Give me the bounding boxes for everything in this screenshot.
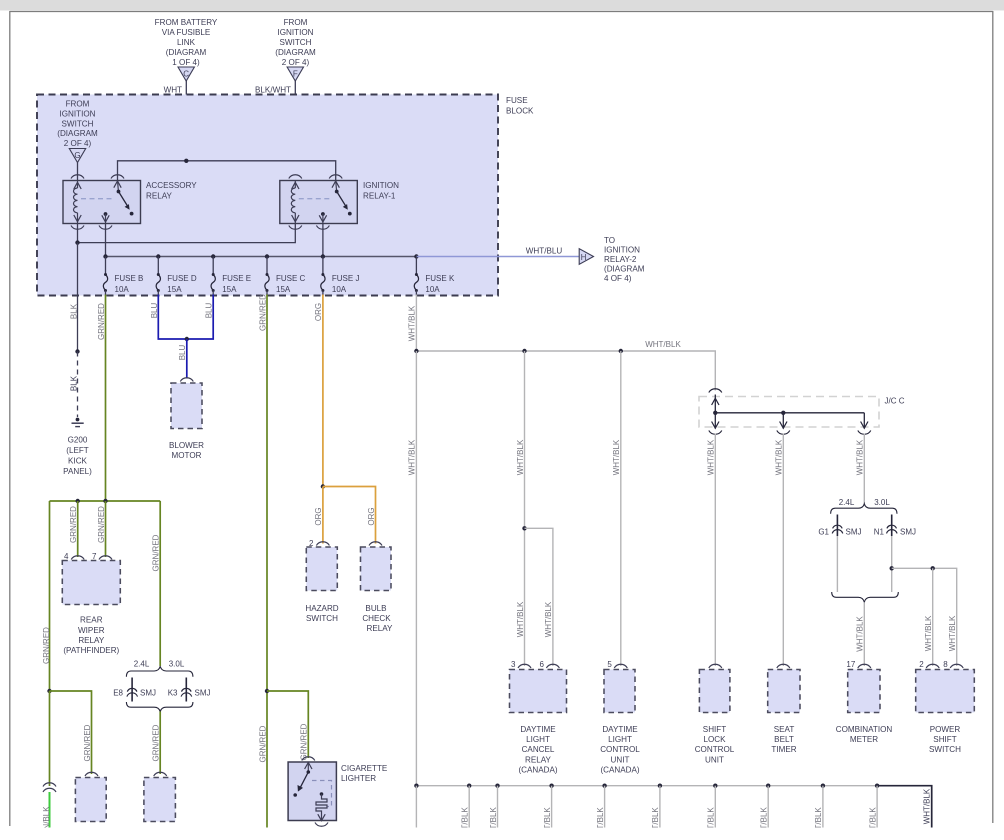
svg-text:GRN/RED: GRN/RED: [83, 724, 92, 761]
J/C C exit arrow middle: [780, 413, 787, 429]
svg-text:K3: K3: [168, 689, 178, 698]
svg-text:IGNITION: IGNITION: [278, 28, 314, 37]
svg-text:4 OF 4): 4 OF 4): [604, 274, 632, 283]
label: G200 (LEFT KICK PANEL): [63, 436, 92, 477]
junction bottom bus 3: [495, 784, 499, 788]
svg-text:N1: N1: [874, 528, 885, 537]
svg-text:FUSE K: FUSE K: [425, 274, 455, 283]
svg-text:RELAY: RELAY: [367, 624, 394, 633]
svg-text:WHT/BLK: WHT/BLK: [612, 439, 621, 475]
label: TO IGNITION RELAY-2 (DIAGRAM 4 OF 4): [604, 236, 645, 283]
junction bottom bus 8: [766, 784, 770, 788]
wire GRN/RED to rear wiper pin 4: [77, 501, 79, 557]
svg-text:BLU: BLU: [205, 302, 214, 318]
seat belt timer box: [768, 670, 800, 713]
junction coil tie / BLK drop: [75, 240, 79, 244]
cigarette lighter switch: [293, 762, 312, 797]
pin arc accessory coil bottom: [71, 226, 84, 230]
J/C C internal riser with up arrow: [712, 395, 719, 413]
svg-text:IGNITION: IGNITION: [60, 110, 96, 119]
merge brace combination meter: [832, 592, 899, 602]
svg-text:G200: G200: [68, 436, 88, 445]
svg-text:3.0L: 3.0L: [169, 659, 185, 668]
pin arc hazard switch: [316, 542, 329, 546]
shift lock control unit box: [699, 670, 730, 713]
svg-text:WHT/BLK: WHT/BLK: [775, 439, 784, 475]
svg-text:(CANADA): (CANADA): [600, 765, 639, 774]
svg-text:J/C C: J/C C: [885, 397, 905, 406]
svg-text:WHT/BLK: WHT/BLK: [645, 340, 681, 349]
junction bottom bus 9: [821, 784, 825, 788]
svg-text:GRN/RED: GRN/RED: [152, 724, 161, 761]
pin arc rear wiper 7: [99, 556, 112, 560]
svg-text:SHIFT: SHIFT: [933, 735, 956, 744]
junction bottom bus 1: [414, 784, 418, 788]
junction cigarette branch: [265, 689, 269, 693]
wire GRN/RED from distribution to engine split: [159, 501, 161, 666]
pin arc cigarette lighter top: [302, 757, 315, 761]
splice junction on BLK: [75, 349, 79, 353]
ignition relay box: [280, 181, 358, 224]
svg-text:WHT: WHT: [164, 86, 182, 95]
svg-text:BULB: BULB: [365, 604, 386, 613]
split brace top right: [831, 504, 897, 514]
svg-text:GRN/RED: GRN/RED: [300, 723, 309, 760]
pin arc J/C C bottom left: [709, 431, 722, 435]
junction bottom bus 10: [875, 784, 879, 788]
wire ORG to hazard switch: [322, 487, 324, 544]
svg-text:VIA FUSIBLE: VIA FUSIBLE: [162, 28, 211, 37]
wire WHT/BLK to shift lock unit: [714, 434, 716, 667]
svg-text:FROM: FROM: [66, 100, 90, 109]
svg-text:METER: METER: [850, 735, 878, 744]
daytime light cancel relay box: [510, 670, 567, 713]
wire BLK inside block: [77, 243, 79, 296]
junction bus at fuse K drop: [414, 349, 418, 353]
wire WHT from triangle C down into fuse block: [185, 81, 187, 161]
svg-text:SMJ: SMJ: [140, 689, 156, 698]
accessory relay switch: [114, 181, 134, 216]
accessory relay output contact: [102, 212, 109, 223]
junction bottom bus 6: [658, 784, 662, 788]
wire WHT/BLK to seat belt timer: [782, 434, 784, 667]
svg-text:WHT/BLK: WHT/BLK: [923, 788, 932, 824]
svg-text:C: C: [183, 70, 189, 79]
svg-text:REAR: REAR: [80, 616, 103, 625]
svg-text:GRN/RED: GRN/RED: [42, 627, 51, 664]
svg-text:FUSE B: FUSE B: [115, 274, 144, 283]
svg-text:GRN/RED: GRN/RED: [152, 534, 161, 571]
svg-text:15A: 15A: [167, 285, 182, 294]
wire 3.0L branch N1: [891, 515, 893, 537]
svg-text:G1: G1: [818, 528, 829, 537]
svg-text:SMJ: SMJ: [195, 689, 211, 698]
pin arc combination meter: [858, 664, 871, 668]
svg-text:COMBINATION: COMBINATION: [836, 725, 893, 734]
svg-text:WHT/BLU: WHT/BLU: [526, 247, 563, 256]
rear wiper relay box: [62, 561, 120, 605]
svg-text:SEAT: SEAT: [774, 725, 795, 734]
wire GRN/BLK below connector: [49, 792, 51, 828]
svg-text:7: 7: [92, 552, 97, 561]
pin arc daytime control 5: [614, 664, 627, 668]
svg-text:10A: 10A: [115, 285, 130, 294]
junction J/C C at 783: [781, 411, 785, 415]
ignition relay dashed link: [299, 198, 330, 200]
pin arc daytime cancel 3: [518, 664, 531, 668]
svg-text:ORG: ORG: [314, 507, 323, 525]
svg-text:WHT/BLK: WHT/BLK: [948, 615, 957, 651]
svg-text:IGNITION: IGNITION: [604, 246, 640, 255]
svg-text:FUSE: FUSE: [506, 96, 528, 105]
svg-text:(DIAGRAM: (DIAGRAM: [57, 129, 98, 138]
label: REAR WIPER RELAY (PATHFINDER): [63, 616, 119, 655]
svg-text:WHT/BLK: WHT/BLK: [856, 616, 865, 652]
wire accessory output down to fuse bus: [105, 224, 107, 257]
junction rear wiper pin7: [103, 499, 107, 503]
pin arc ignition output bottom: [316, 226, 329, 230]
split brace top left: [126, 666, 192, 677]
svg-text:15A: 15A: [276, 285, 291, 294]
svg-text:WHT/BLK: WHT/BLK: [544, 601, 553, 637]
ignition relay output contact: [319, 212, 326, 223]
svg-text:6: 6: [539, 660, 544, 669]
label: FROM IGNITION SWITCH (DIAGRAM 2 OF 4) inside block: [57, 100, 98, 148]
svg-text:FUSE C: FUSE C: [276, 274, 306, 283]
svg-text:GRN/RED: GRN/RED: [97, 303, 106, 340]
top gray band: [0, 0, 1004, 11]
cigarette lighter box: [288, 762, 336, 821]
connector triangle C: [178, 67, 194, 81]
svg-text:ORG: ORG: [314, 303, 323, 321]
svg-text:(DIAGRAM: (DIAGRAM: [166, 48, 207, 57]
svg-text:PANEL): PANEL): [63, 467, 92, 476]
wire WHT/BLK long left vertical: [415, 351, 417, 786]
junction power shift pin2: [931, 566, 935, 570]
svg-text:(CANADA): (CANADA): [518, 765, 557, 774]
wire WHT/BLK branch to pin 6: [525, 528, 553, 666]
pin arc J/C C top: [709, 389, 722, 393]
svg-text:E8: E8: [113, 689, 123, 698]
svg-text:WHT/BLK: WHT/BLK: [408, 305, 417, 341]
junction connector J/C C box: [699, 397, 879, 428]
svg-text:BLU: BLU: [150, 302, 159, 318]
fuse B: [103, 257, 143, 296]
svg-text:1 OF 4): 1 OF 4): [172, 58, 200, 67]
wire BLU from fuse E: [187, 295, 213, 340]
svg-text:LIGHT: LIGHT: [526, 735, 550, 744]
wire stub bottom 6: [659, 786, 661, 828]
J/C C exit arrow left: [712, 413, 719, 429]
fuse D: [156, 257, 197, 296]
wire WHT/BLK to daytime cancel relay: [524, 351, 526, 666]
svg-text:3.0L: 3.0L: [874, 498, 890, 507]
svg-text:WHT/BLK: WHT/BLK: [707, 439, 716, 475]
svg-text:3: 3: [511, 660, 516, 669]
wire stub bottom 8: [767, 786, 769, 828]
wire WHT/BLK to daytime control unit: [620, 351, 622, 666]
svg-text:BLK: BLK: [69, 303, 78, 319]
svg-text:H: H: [581, 253, 587, 262]
fuse J: [321, 257, 360, 296]
svg-text:LIGHT: LIGHT: [608, 735, 632, 744]
ignition relay switch: [332, 181, 352, 216]
wire WHT/BLK from fuse K: [415, 295, 417, 352]
svg-text:FUSE J: FUSE J: [332, 274, 360, 283]
svg-text:SMJ: SMJ: [900, 528, 916, 537]
fuse E: [211, 257, 251, 296]
inline connector on left wire: [43, 783, 56, 787]
inline connector K3 SMJ: [182, 688, 192, 691]
svg-text:TO: TO: [604, 236, 615, 245]
svg-text:10A: 10A: [425, 285, 440, 294]
svg-text:BLOWER: BLOWER: [169, 441, 204, 450]
wire from G to accessory relay coil: [77, 163, 79, 181]
pin arc J/C C bottom right: [858, 431, 871, 435]
svg-text:(LEFT: (LEFT: [66, 446, 89, 455]
blower motor box: [171, 383, 202, 429]
junction left branch: [47, 689, 51, 693]
junction bottom bus 2: [467, 784, 471, 788]
svg-text:17: 17: [846, 660, 855, 669]
wire BLU to blower motor: [186, 339, 188, 379]
junction bottom bus 5: [602, 784, 606, 788]
pin arc rear wiper 4: [71, 556, 84, 560]
svg-text:LINK: LINK: [177, 38, 196, 47]
svg-text:HAZARD: HAZARD: [305, 604, 338, 613]
svg-text:FUSE E: FUSE E: [222, 274, 251, 283]
svg-text:4: 4: [64, 552, 69, 561]
wire GRN/RED distribution line: [50, 500, 161, 502]
wire WHT/BLK N1 down to merge: [891, 536, 893, 592]
svg-text:TIMER: TIMER: [771, 745, 796, 754]
svg-text:SHIFT: SHIFT: [703, 725, 726, 734]
wire stub bottom 4: [551, 786, 553, 828]
fuse K: [414, 257, 455, 296]
inline connector E8 SMJ: [127, 688, 137, 691]
svg-text:SWITCH: SWITCH: [306, 614, 338, 623]
junction cancel relay pin6 branch: [522, 526, 526, 530]
connector triangle G: [69, 149, 85, 163]
pin arc blower motor: [180, 378, 193, 382]
svg-text:F: F: [293, 70, 298, 79]
label: SEAT BELT TIMER: [771, 725, 796, 754]
combination meter box: [848, 670, 880, 713]
wire coil ground tie: [78, 224, 296, 243]
svg-text:GRN/RED: GRN/RED: [69, 506, 78, 543]
wire WHT/BLK to engine split right: [863, 434, 865, 504]
svg-text:GRN/RED: GRN/RED: [258, 725, 267, 762]
svg-text:2.4L: 2.4L: [134, 659, 150, 668]
svg-text:2: 2: [919, 660, 924, 669]
svg-text:CANCEL: CANCEL: [522, 745, 555, 754]
pin arc module2: [154, 772, 167, 776]
svg-text:2.4L: 2.4L: [839, 498, 855, 507]
svg-text:LOCK: LOCK: [703, 735, 726, 744]
svg-text:(PATHFINDER): (PATHFINDER): [63, 646, 119, 655]
wire WHT/BLK bottom bus: [416, 785, 883, 787]
daytime light control unit box: [604, 670, 635, 713]
inline connector G1 SMJ: [833, 525, 843, 528]
svg-text:8: 8: [943, 660, 948, 669]
pin arc ignition coil bottom: [289, 226, 302, 230]
svg-text:LIGHTER: LIGHTER: [341, 774, 376, 783]
svg-text:CHECK: CHECK: [362, 614, 391, 623]
svg-text:KICK: KICK: [68, 457, 87, 466]
wire WHT/BLK top distribution bus: [416, 351, 715, 391]
junction at WHT drop: [184, 159, 188, 163]
svg-text:RELAY: RELAY: [525, 755, 552, 764]
wire GRN/RED from fuse C long: [266, 295, 268, 828]
junction bottom bus 7: [713, 784, 717, 788]
pin arc shift lock: [709, 664, 722, 668]
J/C C exit arrow right: [861, 413, 868, 429]
svg-text:GRN/RED: GRN/RED: [97, 506, 106, 543]
wire stub bottom 3: [497, 786, 499, 828]
wire GRN/RED to rear wiper pin 7: [105, 501, 107, 557]
accessory relay box: [63, 181, 141, 224]
power shift switch box: [916, 670, 975, 713]
svg-text:BLU: BLU: [178, 344, 187, 360]
inline connector N1 SMJ: [887, 525, 897, 528]
junction power shift branch: [890, 566, 894, 570]
wire WHT/BLK to power shift pin 2: [932, 568, 934, 666]
wire stub bottom 7: [714, 786, 716, 828]
wire BLK solid segment: [77, 296, 79, 352]
svg-text:SWITCH: SWITCH: [929, 745, 961, 754]
label: FROM IGNITION SWITCH (DIAGRAM 2 OF 4) top: [275, 18, 316, 67]
svg-text:DAYTIME: DAYTIME: [520, 725, 556, 734]
connector triangle H: [579, 249, 593, 265]
svg-text:RELAY-2: RELAY-2: [604, 255, 637, 264]
label: SHIFT LOCK CONTROL UNIT: [695, 725, 735, 764]
wire stub bottom 1: [415, 786, 417, 828]
svg-text:CONTROL: CONTROL: [600, 745, 640, 754]
wire ORG branch to bulb check relay: [323, 487, 376, 544]
wire WHT/BLK merged to combination meter: [863, 603, 865, 667]
accessory relay dashed link: [81, 198, 112, 200]
svg-text:WHT/BLK: WHT/BLK: [516, 601, 525, 637]
svg-text:UNIT: UNIT: [611, 755, 630, 764]
svg-text:BLK: BLK: [69, 375, 78, 391]
svg-text:SWITCH: SWITCH: [62, 119, 94, 128]
wire 2.4L branch G1: [836, 515, 838, 537]
svg-text:ORG: ORG: [367, 507, 376, 525]
pin arc ignition switch top: [329, 175, 342, 179]
fuse block outline: [37, 95, 498, 296]
svg-text:ACCESSORY: ACCESSORY: [146, 181, 197, 190]
wire GRN/RED from fuse B down: [105, 295, 107, 502]
svg-text:WIPER: WIPER: [78, 626, 105, 635]
svg-text:IGNITION: IGNITION: [363, 181, 399, 190]
connector triangle F: [287, 67, 303, 81]
junction BLU merge: [185, 337, 189, 341]
junction bottom bus 4: [549, 784, 553, 788]
wire stub bottom 2: [468, 786, 470, 828]
wire GRN/RED continues to inline connector: [49, 691, 51, 786]
wire BLU from fuse D: [158, 295, 187, 340]
wire GRN/RED branch to first module: [50, 691, 92, 774]
ignition relay coil: [291, 181, 295, 224]
fuse C: [265, 257, 306, 296]
junction rear wiper pin4: [76, 499, 80, 503]
wire GRN/RED branch to cigarette lighter: [267, 691, 308, 758]
label: COMBINATION METER: [836, 725, 893, 744]
J/C C internal bus: [715, 412, 864, 414]
svg-text:FUSE D: FUSE D: [167, 274, 197, 283]
wire BLK dashed segment to ground: [77, 352, 79, 418]
wire WHT/BLU out of block to triangle H: [416, 256, 579, 258]
svg-text:5: 5: [607, 660, 612, 669]
wire stub bottom 10: [876, 786, 878, 828]
cigarette lighter heating element: [316, 792, 327, 821]
svg-text:DAYTIME: DAYTIME: [602, 725, 638, 734]
wire stub bottom 5: [604, 786, 606, 828]
pin arc seat belt timer: [777, 664, 790, 668]
label: DAYTIME LIGHT CANCEL RELAY (CANADA): [518, 725, 557, 774]
svg-text:10A: 10A: [332, 285, 347, 294]
svg-text:FROM BATTERY: FROM BATTERY: [155, 18, 218, 27]
svg-text:G: G: [74, 151, 80, 160]
wire WHT/BLK branch to power shift switch: [892, 568, 957, 666]
module1 box (unnamed): [75, 778, 106, 822]
svg-text:(DIAGRAM: (DIAGRAM: [275, 48, 316, 57]
svg-text:CONTROL: CONTROL: [695, 745, 735, 754]
junction dots on fuse bus: [103, 254, 107, 258]
wire WHT/BLK G1 down to merge: [836, 536, 838, 592]
junction ORG split: [321, 484, 325, 488]
pin arc accessory switch top: [111, 175, 124, 179]
pin arc module1: [85, 772, 98, 776]
svg-text:RELAY: RELAY: [146, 191, 173, 200]
svg-text:2 OF 4): 2 OF 4): [64, 139, 92, 148]
svg-text:SWITCH: SWITCH: [280, 38, 312, 47]
svg-text:RELAY-1: RELAY-1: [363, 191, 396, 200]
svg-text:CIGARETTE: CIGARETTE: [341, 764, 388, 773]
pin arc bulb check relay: [369, 542, 382, 546]
svg-text:WHT/BLK: WHT/BLK: [408, 439, 417, 475]
pin arc J/C C bottom middle: [777, 431, 790, 435]
cigarette lighter dashed link: [312, 781, 332, 807]
svg-text:UNIT: UNIT: [705, 755, 724, 764]
wire stub bottom 9: [822, 786, 824, 828]
accessory relay coil: [73, 181, 77, 224]
pin arc power shift 2: [926, 664, 939, 668]
svg-text:BELT: BELT: [774, 735, 794, 744]
wire 3.0L branch K3: [185, 678, 187, 702]
svg-text:RELAY: RELAY: [78, 636, 105, 645]
label: FROM BATTERY VIA FUSIBLE LINK (DIAGRAM 1 OF 4): [155, 18, 218, 67]
bottom clip overlay: [0, 828, 1004, 840]
wire 2.4L branch E8: [131, 678, 133, 702]
svg-text:BLOCK: BLOCK: [506, 107, 534, 116]
bulb check relay box: [361, 547, 392, 591]
svg-text:POWER: POWER: [930, 725, 961, 734]
svg-text:15A: 15A: [222, 285, 237, 294]
svg-text:WHT/BLK: WHT/BLK: [924, 615, 933, 651]
svg-text:WHT/BLK: WHT/BLK: [516, 439, 525, 475]
label: DAYTIME LIGHT CONTROL UNIT (CANADA): [600, 725, 640, 774]
svg-text:WHT/BLK: WHT/BLK: [856, 439, 865, 475]
svg-text:2 OF 4): 2 OF 4): [282, 58, 310, 67]
module2 box (unnamed): [144, 778, 176, 822]
wire GRN/RED merged to module2: [159, 712, 161, 775]
junction J/C C at 715: [713, 411, 717, 415]
pin arc power shift 8: [950, 664, 963, 668]
pin arc accessory output bottom: [99, 226, 112, 230]
pin arc ignition coil top: [289, 175, 302, 179]
wire ignition output down to fuse bus: [322, 224, 324, 257]
